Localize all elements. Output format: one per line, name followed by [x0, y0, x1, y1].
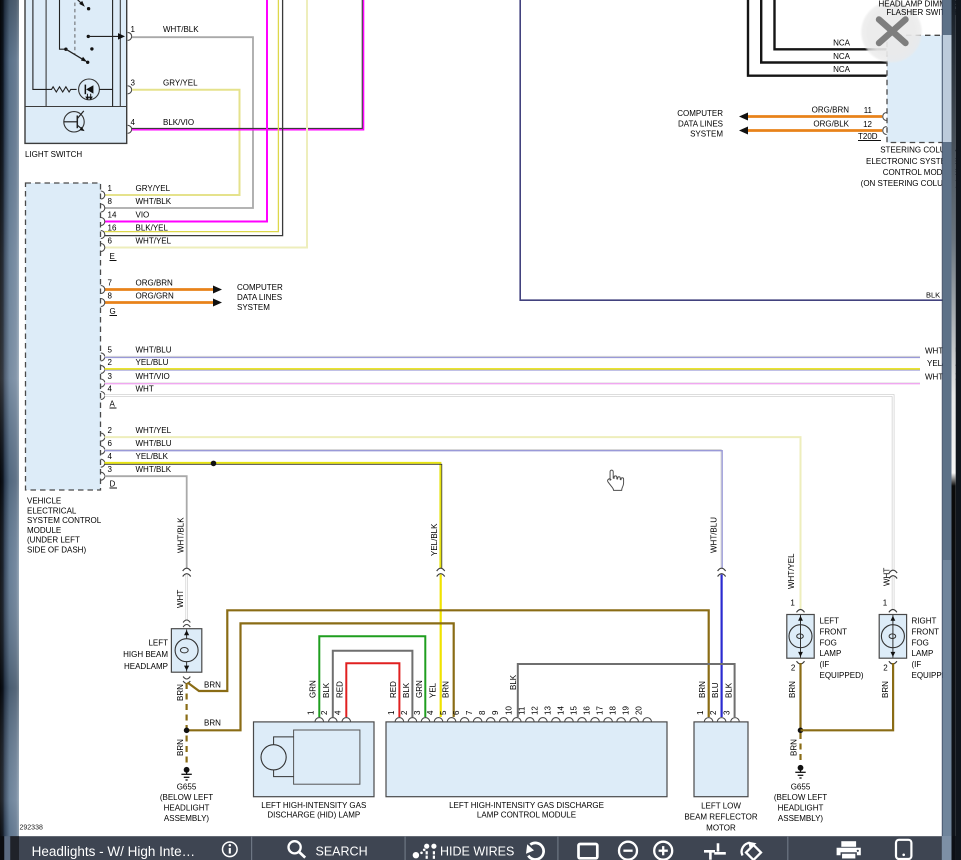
svg-text:BLU: BLU: [711, 682, 720, 698]
svg-text:(BELOW LEFT: (BELOW LEFT: [160, 793, 213, 802]
wire BLK/VIO: light switch pin4 upward: [132, 0, 362, 129]
control module pin 16: [591, 718, 600, 722]
light switch inner compartment: [25, 0, 127, 107]
svg-text:3: 3: [723, 710, 732, 715]
svg-text:RIGHT: RIGHT: [912, 617, 937, 626]
svg-text:WHT/YEL: WHT/YEL: [136, 236, 172, 245]
svg-text:1: 1: [696, 710, 705, 715]
svg-text:3: 3: [131, 79, 136, 88]
wire ORG/GRN: VESCM pin8 to data lines: [105, 301, 215, 304]
toolbar rotate-diamond icon: [746, 845, 761, 860]
svg-text:SYSTEM: SYSTEM: [690, 130, 723, 139]
svg-text:BRN: BRN: [881, 681, 890, 698]
svg-text:1: 1: [883, 599, 888, 608]
control module pin 18: [617, 718, 626, 722]
svg-text:HIGH BEAM: HIGH BEAM: [123, 650, 168, 659]
steering module pin 12: [883, 127, 887, 135]
steering column module body (dashed): [887, 35, 952, 142]
svg-text:VIO: VIO: [136, 210, 150, 219]
svg-text:HEADLIGHT: HEADLIGHT: [778, 804, 824, 813]
svg-text:HEADLAMP: HEADLAMP: [124, 662, 168, 671]
toolbar zoom-out icon: [619, 842, 637, 860]
wire YEL/BLU: VESCM pin2 to right: [105, 368, 921, 370]
wire WHT/BLU: VESCM pin6(D) to reflector motor: [105, 450, 722, 573]
VESCM pin 3 (WHT/BLK) connector: [101, 472, 105, 480]
control module pin 12: [539, 718, 548, 722]
svg-text:WHT: WHT: [176, 590, 185, 608]
control module pin 10: [512, 718, 521, 722]
svg-text:NCA: NCA: [833, 65, 851, 74]
resistor R (rheostat feed): [33, 0, 77, 92]
wire ORG/BRN: VESCM pin7 to data lines: [105, 288, 215, 291]
svg-text:E: E: [110, 252, 115, 261]
svg-text:BRN: BRN: [441, 681, 450, 698]
switch contact dot B: [90, 47, 93, 50]
svg-text:7: 7: [465, 710, 474, 715]
svg-text:(UNDER LEFT: (UNDER LEFT: [27, 536, 80, 545]
wire BRN dashed to ground: [186, 683, 188, 764]
svg-text:12: 12: [530, 706, 539, 715]
ground G655 (fog lamps): [795, 765, 805, 778]
svg-text:G655: G655: [177, 783, 197, 792]
svg-text:20: 20: [635, 706, 644, 715]
svg-text:BRN: BRN: [204, 681, 221, 690]
svg-text:FRONT: FRONT: [912, 627, 940, 636]
wire BLK/YEL: VESCM pin16 upward: [105, 0, 279, 232]
wire BRN dashed to ground (fog): [799, 733, 801, 762]
switch output contact with arrow to pin 1: [87, 35, 90, 38]
toolbar snap-center icon: [704, 843, 726, 860]
junction on YEL/BLK wire: [211, 461, 217, 467]
svg-text:WHT/YEL: WHT/YEL: [136, 426, 172, 435]
svg-text:18: 18: [609, 706, 618, 715]
svg-text:8: 8: [478, 710, 487, 715]
fog lamp body at x=786.8: [787, 615, 814, 659]
svg-text:BRN: BRN: [204, 719, 221, 728]
wire YEL: lower section to HID control module pin4: [440, 573, 442, 717]
svg-text:(IF: (IF: [820, 660, 830, 669]
ground G655 (left): [181, 767, 191, 780]
svg-text:19: 19: [622, 706, 631, 715]
svg-text:ORG/BRN: ORG/BRN: [136, 278, 174, 287]
svg-text:WHT/BLU: WHT/BLU: [136, 346, 172, 355]
svg-text:BEAM REFLECTOR: BEAM REFLECTOR: [684, 813, 757, 822]
svg-text:WHT/BLU: WHT/BLU: [710, 517, 719, 553]
svg-text:BRN: BRN: [698, 681, 707, 698]
svg-text:NCA: NCA: [833, 39, 851, 48]
svg-text:8: 8: [108, 291, 113, 300]
svg-text:HEADLIGHT: HEADLIGHT: [164, 804, 210, 813]
VESCM pin 1 (GRY/YEL) connector: [101, 191, 105, 199]
svg-text:YEL/BLU: YEL/BLU: [136, 358, 169, 367]
svg-text:Headlights - W/ High Inte…: Headlights - W/ High Inte…: [32, 844, 196, 859]
svg-text:LEFT: LEFT: [148, 638, 168, 647]
svg-text:WHT/VIO: WHT/VIO: [136, 372, 170, 381]
VESCM pin 8 (WHT/BLK) connector: [101, 204, 105, 212]
svg-text:ORG/BLK: ORG/BLK: [813, 120, 849, 129]
bottom toolbar: [9, 836, 942, 860]
svg-text:WHT: WHT: [136, 384, 154, 393]
control module pin 6: [460, 718, 469, 722]
left low beam reflector motor body: [694, 722, 748, 797]
VESCM pin 4 (YEL/BLK) connector: [101, 459, 105, 467]
svg-text:GRY/YEL: GRY/YEL: [136, 184, 171, 193]
wire RED: HID pin4 to control module pin1: [346, 663, 399, 717]
svg-text:2: 2: [400, 710, 409, 715]
svg-text:14: 14: [556, 706, 565, 715]
svg-text:13: 13: [543, 706, 552, 715]
control module pin 17: [604, 718, 613, 722]
svg-text:5: 5: [439, 710, 448, 715]
svg-text:2: 2: [320, 710, 329, 715]
wire ORG/BRN to computer data lines (right): [742, 115, 882, 118]
wire BLK 2 (middle) from dimmer switch: [761, 0, 886, 63]
svg-text:LAMP: LAMP: [820, 649, 842, 658]
toolbar info icon: [223, 842, 238, 857]
wire YEL/BLK: VESCM pin4(D) down: [105, 463, 441, 573]
svg-text:WHT/BLU: WHT/BLU: [136, 439, 172, 448]
svg-text:(BELOW LEFT: (BELOW LEFT: [774, 793, 827, 802]
svg-text:292338: 292338: [20, 825, 43, 832]
svg-text:WHT/BLK: WHT/BLK: [136, 465, 172, 474]
break on WHT wire right: [889, 570, 897, 578]
motor pin 1: [704, 718, 713, 722]
svg-text:MOTOR: MOTOR: [706, 824, 736, 833]
break on WHT/BLU wire: [718, 568, 726, 576]
svg-text:BLK: BLK: [724, 682, 733, 698]
svg-text:12: 12: [863, 120, 872, 129]
left page-edge strip: [0, 0, 1, 1]
VESCM pin 4 (WHT) connector: [101, 392, 105, 400]
control module pin 15: [578, 718, 587, 722]
toolbar bookmark icon: [896, 840, 911, 859]
svg-text:3: 3: [108, 372, 113, 381]
svg-text:7: 7: [108, 278, 113, 287]
svg-text:EQUIPPED): EQUIPPED): [820, 671, 864, 680]
control module pin 1: [395, 718, 404, 722]
control module pin 19: [630, 718, 639, 722]
toolbar separator: [251, 836, 252, 860]
control module pin 8: [486, 718, 495, 722]
svg-text:WHT/BLK: WHT/BLK: [163, 25, 199, 34]
toolbar separator: [405, 836, 406, 860]
svg-text:G: G: [110, 307, 116, 316]
svg-text:YEL/BLK: YEL/BLK: [430, 523, 439, 556]
svg-text:1: 1: [387, 710, 396, 715]
wire WHT: VESCM pin4 to right fog lamp: [105, 396, 894, 610]
svg-text:BLK: BLK: [926, 291, 940, 300]
svg-text:5: 5: [108, 346, 113, 355]
headlamp connector top: [183, 620, 190, 627]
svg-text:11: 11: [864, 106, 873, 115]
transistor Q1: [64, 112, 84, 132]
headlamp element: [186, 630, 188, 672]
wire BLK 3 (inner) from dimmer switch: [775, 0, 887, 49]
right page-edge strip: [942, 0, 943, 860]
wire WHT/BLK: light switch pin1 to VESCM pin8: [105, 37, 254, 208]
HID lamp igniter circle: [261, 745, 286, 770]
VESCM pin 5 (WHT/BLU) connector: [101, 353, 105, 361]
toolbar refresh icon: [528, 843, 543, 860]
svg-text:ORG/BRN: ORG/BRN: [812, 106, 850, 115]
control module pin 20: [643, 718, 652, 722]
svg-text:LEFT LOW: LEFT LOW: [701, 802, 741, 811]
HID lamp inner module: [294, 730, 360, 784]
LED arrows: [87, 94, 90, 98]
wire ORG/BLK to computer data lines (right): [742, 129, 882, 132]
svg-text:14: 14: [108, 210, 117, 219]
light switch pin 4 connector: [128, 125, 132, 133]
svg-text:YEL: YEL: [428, 682, 437, 698]
motor pin 3: [731, 718, 740, 722]
wire BLK: control module pin10 to motor pin3: [518, 664, 735, 717]
light switch pin 1 connector: [128, 32, 132, 40]
wire GRY/YEL: light switch pin3 to VESCM pin1: [105, 90, 240, 195]
svg-text:2: 2: [883, 664, 888, 673]
svg-text:16: 16: [108, 223, 117, 232]
wire WHT: lower section to high beam headlamp: [185, 573, 187, 621]
wire BRN: headlamp to motor pin1: [188, 610, 709, 717]
VESCM pin 3 (WHT/VIO) connector: [101, 379, 105, 387]
control module pin 7: [473, 718, 482, 722]
svg-text:FRONT: FRONT: [820, 627, 848, 636]
break on YEL/BLK wire: [437, 568, 445, 576]
mouse cursor (pointing hand): [608, 470, 624, 490]
svg-text:6: 6: [452, 710, 461, 715]
toolbar separator: [557, 836, 558, 860]
svg-text:4: 4: [108, 384, 113, 393]
wire BLK 1 (outer) from dimmer switch: [748, 0, 887, 76]
control module pin 4: [434, 718, 443, 722]
module VESCM body (dashed): [26, 183, 101, 490]
svg-text:LIGHT SWITCH: LIGHT SWITCH: [25, 150, 82, 159]
svg-text:VEHICLE: VEHICLE: [27, 497, 61, 506]
svg-text:NCA: NCA: [833, 52, 851, 61]
svg-text:COMPUTER: COMPUTER: [237, 283, 283, 292]
VESCM pin 8 (ORG/GRN) connector: [101, 299, 105, 307]
svg-text:1: 1: [131, 25, 136, 34]
toolbar zoom-in icon: [654, 842, 672, 860]
switch lower contact dot: [86, 61, 89, 64]
fog lamp body at x=879.2: [879, 615, 906, 659]
wire VIO: VESCM pin14 upward: [105, 0, 268, 222]
LED right lead: [99, 0, 112, 107]
svg-text:GRY/YEL: GRY/YEL: [163, 79, 198, 88]
svg-text:DATA LINES: DATA LINES: [237, 293, 282, 302]
light switch S1 body: [25, 0, 127, 143]
VESCM pin 6 (WHT/YEL) connector: [101, 244, 105, 252]
junction dot fog ground: [798, 728, 804, 734]
svg-text:4: 4: [426, 710, 435, 715]
left HID lamp body: [254, 722, 375, 797]
left HID lamp control module body: [386, 722, 667, 797]
wire BLU: lower section to motor pin2: [720, 573, 722, 717]
wire WHT/YEL: VESCM pin6 upward: [105, 0, 308, 248]
svg-text:BLK/VIO: BLK/VIO: [163, 118, 194, 127]
svg-text:ELECTRICAL: ELECTRICAL: [27, 506, 77, 515]
svg-text:SYSTEM: SYSTEM: [237, 303, 270, 312]
junction dot on BRN ground wire: [184, 728, 190, 734]
wire WHT/BLK: VESCM pin3(D) down: [105, 476, 187, 573]
VESCM pin 6 (WHT/BLU) connector: [101, 446, 105, 454]
svg-text:BLK/YEL: BLK/YEL: [136, 223, 169, 232]
control module pin 9: [499, 718, 508, 722]
svg-text:10: 10: [504, 706, 513, 715]
switch pivot dot: [64, 48, 67, 51]
wire BRN: left fog pin2 to ground junction: [799, 663, 801, 730]
svg-text:FOG: FOG: [912, 638, 929, 647]
left front fog lamp connector top: [797, 610, 805, 613]
svg-text:BLK: BLK: [509, 674, 518, 690]
right front fog lamp connector top: [889, 610, 897, 613]
wire BLK (dark blue route) top right: [520, 0, 943, 300]
break on WHT/BLK wire: [183, 568, 191, 576]
svg-text:1: 1: [790, 599, 795, 608]
svg-text:BLK: BLK: [402, 682, 411, 698]
svg-text:6: 6: [108, 236, 113, 245]
toolbar search icon: [289, 841, 306, 857]
svg-text:3: 3: [413, 710, 422, 715]
svg-text:ASSEMBLY): ASSEMBLY): [778, 814, 824, 823]
svg-text:D: D: [110, 480, 116, 489]
svg-text:2: 2: [709, 710, 718, 715]
svg-text:3: 3: [108, 465, 113, 474]
VESCM pin 2 (WHT/YEL) connector: [101, 433, 105, 441]
control module pin 3: [421, 718, 430, 722]
wire GRN: HID pin1 to control module pin3: [319, 636, 425, 717]
svg-text:LAMP: LAMP: [912, 649, 934, 658]
svg-text:A: A: [110, 400, 116, 409]
HID igniter leads: [274, 737, 294, 777]
control module pin 11: [526, 718, 535, 722]
light switch pin 3 connector: [128, 86, 132, 94]
VESCM pin 14 (VIO) connector: [101, 218, 105, 226]
VESCM pin 7 (ORG/BRN) connector: [101, 286, 105, 294]
svg-text:17: 17: [596, 706, 605, 715]
close button (X): [0, 0, 1, 1]
svg-text:WHT/BLK: WHT/BLK: [176, 517, 185, 553]
svg-text:SEARCH: SEARCH: [316, 844, 368, 858]
toolbar print icon: [837, 841, 861, 859]
fog lamp connector bottom: [797, 661, 805, 664]
switch pivot feed line: [60, 0, 66, 49]
wire WHT/YEL: VESCM pin2(D) to left fog lamp: [105, 437, 801, 609]
svg-text:FOG: FOG: [820, 638, 837, 647]
svg-text:BLK: BLK: [322, 682, 331, 698]
wire WHT/VIO: VESCM pin3 to right: [105, 382, 921, 384]
light switch dashed actuator line: [74, 0, 76, 54]
svg-text:LEFT HIGH-INTENSITY GAS DISCHA: LEFT HIGH-INTENSITY GAS DISCHARGE: [449, 801, 604, 810]
wire BRN: ground junction to HID control module pin5: [187, 623, 454, 730]
svg-text:COMPUTER: COMPUTER: [677, 109, 723, 118]
left high beam headlamp body: [171, 629, 201, 673]
svg-text:GRN: GRN: [309, 680, 318, 698]
svg-text:16: 16: [583, 706, 592, 715]
VESCM pin 16 (BLK/YEL) connector: [101, 231, 105, 239]
toolbar fit-screen icon: [579, 844, 598, 858]
motor pin 2: [717, 718, 726, 722]
toolbar hide-wires icon: [413, 844, 437, 859]
svg-text:2: 2: [108, 358, 113, 367]
svg-text:2: 2: [108, 426, 113, 435]
svg-text:6: 6: [108, 439, 113, 448]
wire BLK: HID pin2 to control module pin2: [333, 651, 413, 717]
svg-text:4: 4: [108, 452, 113, 461]
svg-text:RED: RED: [336, 681, 345, 698]
svg-text:GRN: GRN: [415, 680, 424, 698]
switch blade top: [72, 0, 83, 5]
VESCM pin 2 (YEL/BLU) connector: [101, 365, 105, 373]
svg-text:WHT/BLK: WHT/BLK: [136, 197, 172, 206]
svg-text:BRN: BRN: [790, 739, 799, 756]
svg-text:ASSEMBLY): ASSEMBLY): [164, 814, 210, 823]
headlamp connector bottom: [183, 677, 190, 684]
svg-text:4: 4: [131, 118, 136, 127]
svg-text:SIDE OF DASH): SIDE OF DASH): [27, 546, 86, 555]
svg-text:DATA LINES: DATA LINES: [678, 119, 723, 128]
svg-text:LEFT: LEFT: [820, 617, 840, 626]
svg-text:DISCHARGE (HID) LAMP: DISCHARGE (HID) LAMP: [267, 811, 360, 820]
svg-text:G655: G655: [791, 783, 811, 792]
svg-text:2: 2: [791, 664, 796, 673]
control module pin 2: [408, 718, 417, 722]
svg-text:4: 4: [334, 710, 343, 715]
switch contact dot A: [87, 7, 90, 10]
svg-text:BRN: BRN: [176, 684, 185, 701]
svg-text:BRN: BRN: [788, 681, 797, 698]
toolbar separator: [787, 836, 788, 860]
wire BRN: junction to right fog pin2: [801, 663, 894, 730]
svg-text:8: 8: [108, 197, 113, 206]
steering module pin 11: [883, 113, 887, 121]
control module pin 13: [552, 718, 561, 722]
svg-text:BRN: BRN: [176, 739, 185, 756]
svg-text:1: 1: [307, 710, 316, 715]
svg-text:RED: RED: [389, 681, 398, 698]
svg-text:SYSTEM CONTROL: SYSTEM CONTROL: [27, 516, 102, 525]
svg-text:(IF: (IF: [912, 660, 922, 669]
control module pin 14: [565, 718, 574, 722]
HID lamp pin 4: [342, 718, 351, 722]
svg-text:9: 9: [491, 710, 500, 715]
svg-text:15: 15: [570, 706, 579, 715]
svg-text:ORG/GRN: ORG/GRN: [136, 291, 174, 300]
wire WHT/BLU: VESCM pin5 to right: [105, 355, 921, 357]
svg-text:WHT/YEL: WHT/YEL: [787, 553, 796, 589]
LED / illumination lamp D1: [79, 79, 100, 100]
svg-text:HIDE WIRES: HIDE WIRES: [440, 844, 514, 858]
fog lamp connector bottom: [889, 661, 897, 664]
HID lamp pin 1: [315, 718, 324, 722]
svg-text:YEL/BLK: YEL/BLK: [136, 452, 169, 461]
svg-text:LEFT HIGH-INTENSITY GAS: LEFT HIGH-INTENSITY GAS: [261, 801, 366, 810]
svg-text:T20D: T20D: [858, 132, 878, 141]
HID lamp pin 2: [329, 718, 338, 722]
control module pin 5: [447, 718, 456, 722]
switch blade bottom: [66, 49, 83, 60]
svg-text:LAMP CONTROL MODULE: LAMP CONTROL MODULE: [477, 811, 576, 820]
svg-text:1: 1: [108, 184, 113, 193]
svg-text:MODULE: MODULE: [27, 526, 61, 535]
